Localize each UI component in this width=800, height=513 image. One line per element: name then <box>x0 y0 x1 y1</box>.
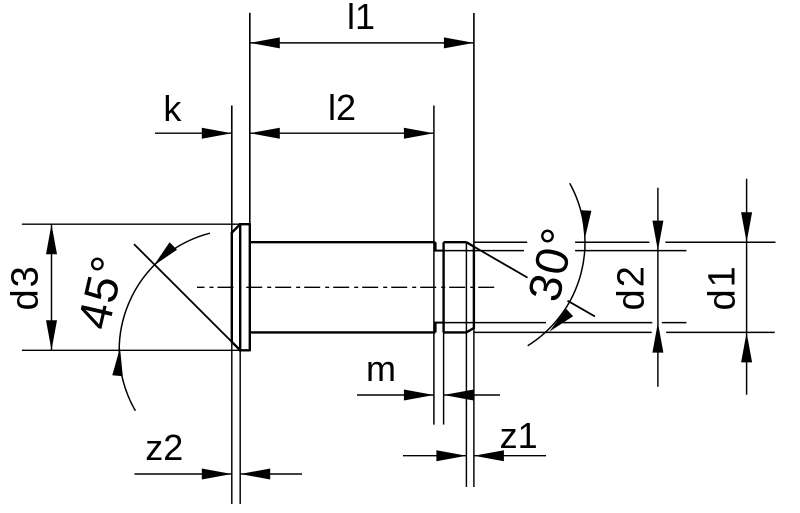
z1 right extension line <box>473 328 475 487</box>
dimension line k leader <box>155 132 232 134</box>
dimension line z1 left leader <box>403 455 466 457</box>
groove bottom edge <box>434 322 443 324</box>
svg-text:m: m <box>366 348 396 389</box>
head top edge <box>239 223 250 225</box>
dimension line d3 <box>51 224 53 350</box>
thread block right face <box>473 246 475 329</box>
svg-text:d1: d1 <box>701 264 743 310</box>
head bottom-left chamfer <box>231 341 240 350</box>
head left face <box>231 233 233 342</box>
d2 upper extension / thread core top line <box>434 250 686 252</box>
dimension line l2 <box>250 132 434 134</box>
groove step upper face <box>434 242 436 250</box>
thread end top chamfer <box>466 242 474 246</box>
dimension line m left leader <box>357 394 434 396</box>
d3 top arrowhead <box>46 224 57 254</box>
l1 l2 left extension line <box>249 13 251 224</box>
l2 left / k right arrowhead <box>250 128 280 139</box>
d1 lower extension line <box>475 331 775 333</box>
l1 right arrowhead <box>444 37 474 48</box>
head chamfer junction line <box>239 224 241 350</box>
k left arrowhead <box>202 128 232 139</box>
l2 right / m left extension line <box>433 106 435 425</box>
z2 right extension line <box>239 350 241 504</box>
dimension line z2 left leader <box>135 473 232 475</box>
30-degree dimension arc <box>528 183 585 346</box>
d3 upper extension line <box>22 223 240 225</box>
d1 bottom arrowhead <box>741 332 752 362</box>
z2 left extension line <box>231 342 233 504</box>
m left arrowhead <box>404 390 434 401</box>
45-degree dimension arc <box>119 233 210 411</box>
svg-text:z2: z2 <box>145 427 183 468</box>
d1 top arrowhead <box>741 212 752 242</box>
l1 right extension line <box>473 13 475 247</box>
z1 left extension line <box>465 242 467 487</box>
svg-text:d2: d2 <box>610 264 652 310</box>
svg-text:l2: l2 <box>328 87 356 128</box>
dimension line l1 <box>250 42 474 44</box>
30-degree arc lower arrowhead <box>549 309 573 332</box>
groove top edge <box>434 250 443 252</box>
shank bottom edge <box>250 331 436 333</box>
pin axis centerline right part <box>246 286 495 288</box>
d2 top arrowhead <box>652 221 663 251</box>
svg-text:d3: d3 <box>4 264 46 310</box>
thread chamfer 30-degree construction line <box>466 242 595 316</box>
svg-text:z1: z1 <box>500 415 538 456</box>
d2 bottom arrowhead <box>652 323 663 353</box>
d2 lower extension / thread core bottom line <box>434 322 686 324</box>
dimension line z1 right leader <box>474 455 546 457</box>
dimension line m right leader <box>444 394 500 396</box>
dimension line d1 <box>746 179 748 395</box>
m right arrowhead <box>444 390 474 401</box>
d3 bottom arrowhead <box>46 320 57 350</box>
head bottom edge <box>239 349 250 351</box>
dimension line z2 right leader <box>240 473 302 475</box>
l1 left arrowhead <box>250 37 280 48</box>
30-degree arc upper arrowhead <box>581 210 591 238</box>
45-degree arc arrowhead on chamfer line <box>154 242 178 265</box>
z1 left arrowhead <box>436 450 466 461</box>
m right extension line <box>443 332 445 424</box>
head right face <box>249 223 251 351</box>
k upper extension line <box>231 106 233 233</box>
thread block left face <box>442 242 444 332</box>
d1 upper extension line <box>474 241 776 243</box>
shank top edge <box>250 241 436 243</box>
d3 lower extension line <box>22 349 240 351</box>
45-degree arc arrowhead on head bottom line <box>112 348 123 376</box>
dimension line d2 <box>657 188 659 387</box>
svg-text:k: k <box>163 88 182 129</box>
l2 right arrowhead <box>404 128 434 139</box>
z2 right arrowhead <box>240 469 270 480</box>
z1 right arrowhead <box>474 450 504 461</box>
head chamfer 45-degree construction line <box>134 244 240 350</box>
thread block top edge <box>444 241 467 243</box>
thread block bottom edge <box>444 331 467 333</box>
svg-text:l1: l1 <box>347 0 375 37</box>
pin axis centerline <box>197 286 234 288</box>
groove step lower face <box>434 323 436 333</box>
z2 left arrowhead <box>202 469 232 480</box>
thread end bottom chamfer <box>466 328 474 332</box>
head top-left chamfer <box>231 224 240 233</box>
